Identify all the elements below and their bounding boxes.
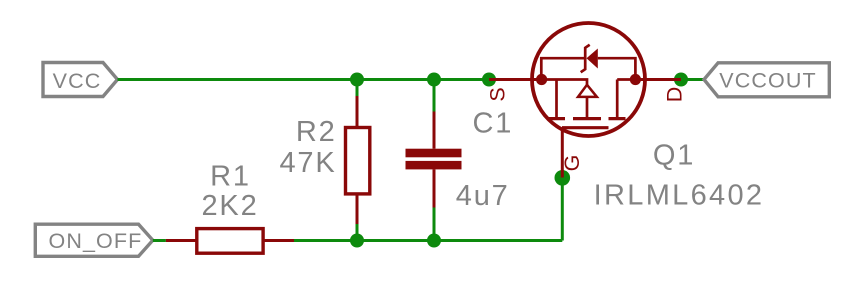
channel bar middle bbox=[573, 117, 601, 120]
channel bar right bbox=[609, 117, 626, 120]
resistor R1 bbox=[166, 229, 294, 254]
svg-text:G: G bbox=[560, 155, 584, 172]
svg-text:ON_OFF: ON_OFF bbox=[49, 229, 143, 253]
body circle bbox=[532, 23, 645, 136]
svg-text:VCC: VCC bbox=[53, 69, 102, 93]
svg-text:D: D bbox=[663, 87, 687, 103]
junction dot top C1 bbox=[427, 73, 441, 87]
net label VCC bbox=[43, 63, 118, 97]
body arrow bbox=[578, 85, 597, 97]
wire gate vertical bbox=[561, 178, 564, 241]
body-diode rail left bbox=[541, 58, 584, 79]
svg-text:R2: R2 bbox=[296, 116, 337, 148]
svg-text:Q1: Q1 bbox=[653, 140, 695, 172]
drain metal line bbox=[617, 78, 635, 81]
svg-text:47K: 47K bbox=[280, 147, 337, 179]
plate top C1 bbox=[406, 149, 462, 158]
svg-text:4u7: 4u7 bbox=[456, 180, 510, 212]
svg-text:C1: C1 bbox=[473, 108, 514, 140]
S internal dot bbox=[536, 74, 547, 85]
resistor R2 bbox=[346, 96, 370, 224]
wire R2 bottom stub bbox=[356, 224, 359, 241]
svg-text:VCCOUT: VCCOUT bbox=[719, 69, 816, 93]
transistor Q1 IRLML6402 bbox=[489, 23, 681, 178]
gate plate bbox=[562, 126, 609, 129]
svg-text:IRLML6402: IRLML6402 bbox=[594, 179, 765, 211]
wire D to VCCOUT bbox=[681, 78, 704, 81]
pin D lead bbox=[635, 78, 681, 81]
capacitor C1 bbox=[406, 112, 462, 208]
pin G lead bbox=[561, 128, 564, 178]
junction dot bottom C1 bbox=[427, 234, 441, 248]
net label ON_OFF bbox=[35, 224, 153, 256]
junction dot G bbox=[555, 170, 571, 186]
pin 2 lead C1 bbox=[433, 169, 436, 207]
pin 1 lead R1 bbox=[166, 239, 197, 242]
source metal line bbox=[542, 80, 587, 85]
plate bottom C1 bbox=[406, 161, 462, 170]
wire R2 top stub bbox=[356, 80, 359, 97]
pin S lead bbox=[489, 78, 542, 81]
svg-text:R1: R1 bbox=[210, 161, 251, 193]
body R1 bbox=[197, 229, 263, 254]
wire C1 top stub bbox=[433, 80, 436, 112]
source finger bbox=[555, 80, 558, 118]
channel bar left bbox=[549, 117, 566, 120]
wire bottom rail horizontal bbox=[294, 239, 562, 242]
body-diode rail right bbox=[598, 58, 636, 79]
junction dot top R2 bbox=[350, 73, 364, 87]
drain finger bbox=[616, 80, 619, 118]
pin 1 lead C1 bbox=[433, 112, 436, 149]
junction dot S bbox=[482, 73, 496, 87]
pin 2 lead R2 bbox=[356, 194, 359, 224]
wire ON_OFF to R1 bbox=[153, 239, 166, 242]
body stub bbox=[586, 97, 589, 117]
wire C1 bottom stub bbox=[433, 208, 436, 241]
junction dot bottom R2 bbox=[350, 234, 364, 248]
body-diode triangle bbox=[587, 49, 598, 69]
zener cathode bar bbox=[581, 45, 590, 72]
body R2 bbox=[346, 128, 370, 194]
pin 2 lead R1 bbox=[263, 239, 294, 242]
pin 1 lead R2 bbox=[356, 96, 359, 128]
net label VCCOUT bbox=[704, 63, 829, 97]
svg-text:2K2: 2K2 bbox=[202, 190, 259, 222]
wire VCC to S junction bbox=[118, 78, 490, 81]
junction dot D bbox=[674, 73, 688, 87]
D internal dot bbox=[630, 74, 641, 85]
svg-text:S: S bbox=[486, 87, 510, 101]
